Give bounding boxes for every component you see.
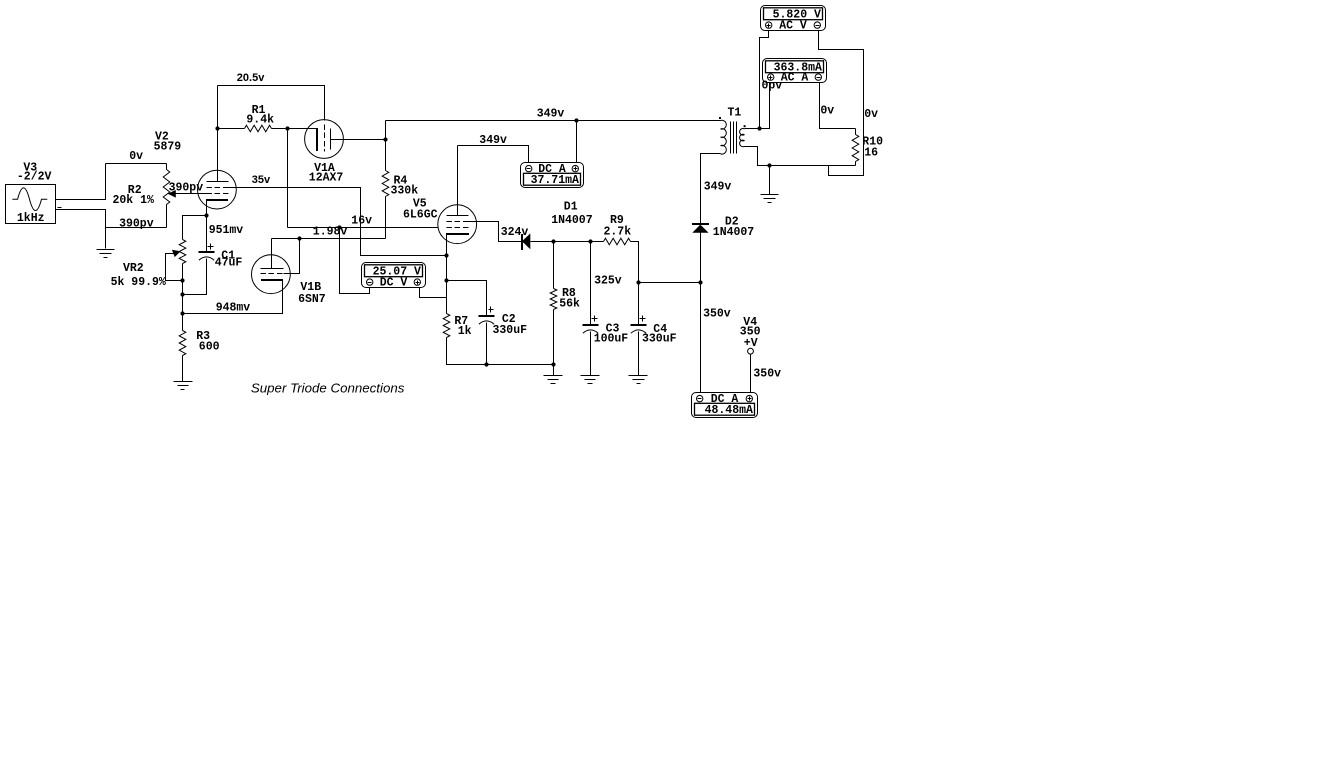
svg-text:AC V: AC V	[779, 20, 807, 33]
svg-text:20.5v: 20.5v	[237, 72, 265, 84]
wire R8 bottom lead	[553, 310, 555, 365]
ground at R3	[174, 382, 193, 390]
capacitor C2 330uF	[479, 307, 495, 325]
svg-text:D1: D1	[564, 200, 578, 213]
svg-text:330k: 330k	[391, 185, 419, 198]
wire VR2 wiper	[166, 254, 183, 281]
wire R1 right lead	[272, 128, 288, 130]
tube V2 5879 pentode	[198, 170, 237, 209]
wire R1 left lead	[218, 128, 245, 130]
capacitor C1 47uF	[199, 244, 215, 261]
svg-text:330uF: 330uF	[493, 324, 528, 337]
junction V1A plate/349v	[383, 137, 387, 141]
wire C1 top lead	[206, 216, 208, 253]
tube V1A 12AX7 triode	[305, 120, 344, 159]
wire 35v V2 g1 to V5 cathode	[235, 188, 447, 256]
wire D1 to R9	[531, 241, 591, 243]
phase dot primary	[719, 117, 721, 119]
diode D1 1N4007	[522, 233, 530, 250]
svg-text:2.7k: 2.7k	[604, 225, 632, 238]
junction R8 top	[551, 239, 555, 243]
wire 16v rail to V5 g2	[288, 227, 439, 229]
svg-text:325v: 325v	[594, 275, 622, 288]
resistor R7 1k	[443, 314, 450, 338]
wire R7 top lead	[446, 281, 448, 314]
wire R10 bottom lead	[855, 162, 857, 166]
wire C1 bottom lead	[183, 259, 207, 295]
resistor VR2 pot 5k	[179, 240, 186, 264]
ground at C4	[629, 376, 648, 384]
svg-text:1N4007: 1N4007	[551, 214, 593, 227]
junction R1/V1A cathode	[285, 126, 289, 130]
svg-text:47uF: 47uF	[215, 257, 243, 270]
wire to ground	[769, 166, 771, 195]
wire R10 top lead	[855, 129, 857, 135]
wire VR2 bottom chain	[182, 264, 184, 331]
svg-text:Super Triode Connections: Super Triode Connections	[251, 380, 405, 395]
wire R2 top lead	[166, 164, 168, 170]
junction VR2 wiper tie	[180, 278, 184, 282]
meter DC V 25.07V	[362, 263, 426, 288]
junction 350v	[698, 280, 702, 284]
wire R2 box bottom	[106, 227, 167, 229]
svg-text:1kHz: 1kHz	[17, 212, 45, 225]
svg-text:6SN7: 6SN7	[298, 293, 326, 306]
meter DC A 48.48mA	[692, 393, 758, 418]
transformer T1	[721, 120, 745, 154]
arrowhead R2 wiper	[168, 190, 176, 198]
svg-text:100uF: 100uF	[594, 333, 629, 346]
wire V1B plate lead	[271, 239, 273, 269]
wire 1.98v	[272, 238, 386, 240]
diode D2 1N4007	[692, 224, 709, 233]
wire D2 cathode to T1 primary bottom	[701, 154, 721, 225]
junction C3 top	[588, 239, 592, 243]
wire C2 bottom lead	[486, 323, 488, 365]
wire meter- to 16v	[340, 228, 370, 294]
svg-text:6L6GC: 6L6GC	[403, 208, 438, 221]
svg-text:948mv: 948mv	[216, 302, 251, 315]
junction 1.98v/V1B grid	[297, 236, 301, 240]
resistor R8 56k	[550, 289, 557, 310]
wire V3- to ground	[56, 210, 106, 249]
svg-text:0pv: 0pv	[762, 80, 783, 93]
wire 16v vertical	[287, 129, 289, 228]
wire V1A plate lead	[331, 139, 386, 141]
ground at T1 secondary	[761, 195, 779, 203]
svg-text:390pv: 390pv	[119, 217, 154, 230]
junction secondary ground	[767, 163, 771, 167]
svg-text:16: 16	[864, 147, 878, 160]
capacitor C4 330uF	[631, 316, 647, 334]
svg-text:1.98v: 1.98v	[313, 226, 348, 239]
wire 20.5v rail to V1A grid	[218, 86, 325, 121]
wire V1B grid lead	[284, 239, 300, 274]
wire to AC V meter+	[760, 31, 769, 129]
wire C3 top lead	[590, 242, 592, 325]
svg-text:0v: 0v	[820, 105, 834, 118]
svg-text:-2/2V: -2/2V	[17, 171, 52, 184]
wire R2 wiper	[173, 193, 207, 195]
junction 948mv	[180, 311, 184, 315]
junction 20.5v/R1	[215, 126, 219, 130]
ground at C3	[581, 376, 600, 384]
resistor R2 pot 20k	[163, 170, 170, 205]
wire V2 grid1 stub	[229, 187, 235, 189]
arrowhead VR2 wiper	[172, 250, 181, 257]
resistor R4 330k	[382, 171, 389, 197]
svg-text:5k 99.9%: 5k 99.9%	[111, 276, 166, 289]
svg-text:1k: 1k	[458, 325, 472, 338]
svg-text:12AX7: 12AX7	[309, 172, 344, 185]
wire R3 to ground	[182, 356, 184, 382]
tube V5 6L6GC pentode	[438, 205, 477, 244]
wire ground stub	[553, 365, 555, 376]
wire V5 cathode down	[446, 234, 448, 281]
svg-text:349v: 349v	[704, 181, 732, 194]
resistor R1 9.4k	[245, 125, 272, 132]
wire C3 to ground	[590, 332, 592, 376]
junction AC V tap	[757, 126, 761, 130]
tube V1B 6SN7 triode	[252, 255, 291, 294]
svg-text:VR2: VR2	[123, 262, 144, 275]
junction 349v/meter	[574, 118, 578, 122]
wire AC A meter- to R10 top	[820, 83, 856, 129]
wire secondary top to AC A meter+	[745, 83, 770, 129]
junction C1 bottom	[180, 292, 184, 296]
wire V2 plate to 20.5v rail	[217, 86, 219, 182]
svg-text:9.4k: 9.4k	[246, 113, 274, 126]
svg-text:16v: 16v	[351, 214, 372, 227]
wire secondary bottom rail	[745, 147, 856, 166]
junction ground rail	[551, 362, 555, 366]
svg-text:324v: 324v	[501, 226, 529, 239]
wire V3+ to 0v rail	[56, 164, 106, 200]
capacitor C3 100uF	[583, 316, 599, 334]
svg-text:349v: 349v	[537, 107, 565, 120]
wire 350v to meter	[700, 283, 702, 393]
svg-text:5879: 5879	[154, 141, 182, 154]
svg-text:DC A: DC A	[711, 393, 739, 406]
svg-text:0v: 0v	[129, 150, 143, 163]
wire C2 top lead	[447, 281, 487, 316]
source V3 sine generator box	[6, 185, 56, 224]
resistor R10 16	[852, 135, 859, 162]
wire C4 node to 350v node	[639, 282, 701, 284]
resistor R3 600	[179, 331, 186, 356]
wire R7 bottom to ground rail	[447, 338, 554, 365]
svg-text:951mv: 951mv	[209, 224, 244, 237]
wire V2 cathode lead	[206, 200, 208, 216]
wire R4 to 1.98v	[385, 197, 387, 239]
meter AC V 5.820V	[761, 6, 826, 31]
svg-text:350v: 350v	[703, 308, 731, 321]
svg-text:349v: 349v	[479, 134, 507, 147]
wire R8 top lead	[553, 242, 555, 289]
svg-text:T1: T1	[728, 106, 742, 119]
ground at R8	[544, 376, 563, 384]
wire 324v V5 g1 to D1	[469, 222, 522, 242]
wire 349v corner to R4	[385, 121, 387, 171]
wire V1B cathode 948mv	[183, 281, 283, 314]
power terminal V4 +V 350	[748, 348, 754, 354]
junction 35v/V5 cathode	[444, 253, 448, 257]
svg-text:DC V: DC V	[380, 277, 408, 290]
svg-text:+V: +V	[744, 337, 758, 350]
wire 349v stub to meter	[458, 146, 529, 163]
svg-text:35v: 35v	[252, 174, 271, 186]
wire R2 bottom lead	[166, 205, 168, 228]
wire meter+ to V5 cathode	[420, 288, 447, 298]
wire R9 right to C4	[631, 242, 639, 283]
phase dot secondary	[744, 125, 746, 127]
wire meter to 349v rail	[576, 121, 578, 163]
wire C4 to ground	[638, 332, 640, 376]
svg-text:20k 1%: 20k 1%	[113, 194, 155, 207]
junction C2 bottom	[484, 362, 488, 366]
svg-text:350v: 350v	[753, 368, 781, 381]
svg-text:DC A: DC A	[538, 163, 566, 176]
meter DC A 37.71mA	[521, 163, 584, 188]
svg-text:56k: 56k	[559, 298, 580, 311]
resistor R9 2.7k	[604, 238, 631, 245]
junction R7/C2	[444, 278, 448, 282]
terminal tick V3 minus	[58, 207, 62, 209]
wire 0v rail to R2 top	[106, 163, 167, 165]
wire 349v rail	[386, 120, 721, 122]
wire V4 to meter	[750, 355, 752, 393]
wire 350v to D2 anode	[700, 233, 702, 283]
wire AC V meter- to 0v	[819, 31, 864, 176]
wire C4 top lead	[638, 283, 640, 325]
wire R9 left lead	[591, 241, 604, 243]
svg-text:330uF: 330uF	[642, 333, 677, 346]
svg-text:600: 600	[199, 341, 220, 354]
junction 16v/meter	[337, 225, 341, 229]
junction C4 top	[636, 280, 640, 284]
ground at V3/R2	[97, 250, 115, 258]
wire to VR2 top	[183, 216, 207, 240]
meter AC A 363.8mA	[763, 59, 827, 83]
svg-text:0v: 0v	[864, 108, 878, 121]
wire V1A cathode lead	[288, 128, 308, 130]
junction V2 cathode	[204, 213, 208, 217]
svg-text:1N4007: 1N4007	[713, 226, 755, 239]
wire V5 plate lead	[457, 146, 459, 216]
svg-text:AC A: AC A	[781, 72, 809, 85]
